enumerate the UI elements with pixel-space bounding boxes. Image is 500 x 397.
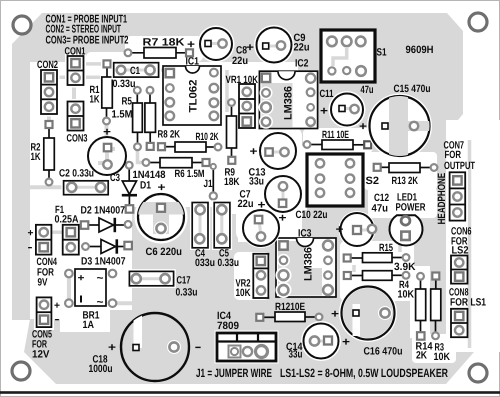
svg-text:10K: 10K <box>236 287 251 299</box>
svg-text:47u: 47u <box>361 84 374 96</box>
capacitor C8 <box>187 26 254 68</box>
svg-text:D1: D1 <box>140 180 151 192</box>
white clearance: VR2 zone <box>234 252 270 300</box>
LED1 <box>390 192 426 246</box>
svg-text:J1 = JUMPER WIRE: J1 = JUMPER WIRE <box>196 366 272 380</box>
capacitor C11 <box>320 84 374 128</box>
resistor R5 <box>112 87 143 150</box>
capacitor C9 <box>254 25 310 65</box>
trace: output net right margin <box>468 140 472 348</box>
trace: R8 to J1 row <box>150 150 208 154</box>
svg-text:R15: R15 <box>379 242 393 254</box>
capacitor C12 <box>336 192 390 248</box>
preset VR1 <box>226 74 259 131</box>
capacitor C1 <box>112 61 162 91</box>
svg-text:+: + <box>342 337 350 349</box>
svg-text:+: + <box>28 228 34 239</box>
trace: CON2 to R1 <box>57 76 100 80</box>
svg-text:22u: 22u <box>294 42 310 54</box>
svg-text:R11 10E: R11 10E <box>322 129 349 141</box>
capacitor C6 <box>135 182 188 258</box>
svg-text:R10 2K: R10 2K <box>196 131 219 143</box>
svg-text:0.33u: 0.33u <box>113 78 136 90</box>
resistor R6 <box>143 158 210 180</box>
legend text block <box>46 14 129 47</box>
resistor R11 <box>304 129 372 150</box>
switch S2 <box>307 154 379 206</box>
svg-text:22u: 22u <box>232 55 248 67</box>
svg-text:~: ~ <box>97 273 105 285</box>
trace: F1 down <box>69 252 73 262</box>
mounting hole top-left <box>13 16 31 34</box>
white clearance: R1/C1/R5 zone <box>86 52 162 124</box>
svg-text:9609H: 9609H <box>406 44 434 56</box>
svg-text:C1: C1 <box>130 65 140 77</box>
white clearance: R7 zone <box>125 36 203 62</box>
PCB copper pour: mid-right zone under S1 around C11/C15 <box>298 62 437 218</box>
trace: C2 to C3 <box>101 169 108 187</box>
svg-text:CON1: CON1 <box>65 46 86 58</box>
svg-text:S2: S2 <box>366 175 380 187</box>
svg-text:R1210E: R1210E <box>275 301 305 313</box>
diode D3 1N4007 <box>81 239 132 267</box>
svg-text:0.25A: 0.25A <box>55 214 79 226</box>
svg-text:-: - <box>28 242 33 254</box>
svg-text:+: + <box>187 39 195 51</box>
jumper J1 <box>204 164 217 200</box>
svg-text:R7 18K: R7 18K <box>143 37 185 49</box>
white clearance: left-mid (CON4/F1/diodes/BR1) <box>30 198 132 310</box>
svg-text:+: + <box>103 127 111 139</box>
white clearance: R11 zone <box>303 128 373 153</box>
white clearance: central zone <box>30 124 252 207</box>
connector CON6 <box>451 226 472 284</box>
svg-text:+: + <box>331 309 339 321</box>
capacitor C15 <box>359 83 432 159</box>
white clearance: VR1/R9 column <box>222 64 258 214</box>
switch S1 <box>321 30 387 82</box>
svg-text:+: + <box>246 42 254 54</box>
white clearance: R15/R4 zone <box>340 241 414 301</box>
bottom dark rule <box>0 391 500 394</box>
capacitor C2 <box>59 168 110 198</box>
svg-text:C17: C17 <box>177 275 191 287</box>
svg-text:22u: 22u <box>238 198 254 210</box>
svg-text:+: + <box>320 106 328 118</box>
diode D1 1N4148 <box>122 162 166 213</box>
svg-text:0.33u: 0.33u <box>218 257 240 269</box>
svg-text:LS2: LS2 <box>452 245 469 257</box>
svg-text:R6 1.5M: R6 1.5M <box>175 168 205 180</box>
connector CON1 <box>65 46 87 88</box>
svg-text:CON3: CON3 <box>67 133 88 145</box>
svg-text:LS1-LS2 = 8-OHM, 0.5W LOUDSPEA: LS1-LS2 = 8-OHM, 0.5W LOUDSPEAKER <box>280 366 448 380</box>
svg-text:C10 22u: C10 22u <box>296 209 328 221</box>
trace: CON2 to R2 <box>47 115 51 123</box>
trace: CON4 to F1 <box>51 230 62 234</box>
amplifier IC3 LM386 <box>276 228 337 299</box>
trace: CON1 to CON3 <box>72 86 76 100</box>
trace: BR1 right pad <box>116 301 140 305</box>
resistor R1 <box>90 60 113 124</box>
resistor R4 <box>344 271 414 301</box>
svg-text:7809: 7809 <box>217 320 239 332</box>
regulator IC4 7809 <box>215 310 279 364</box>
svg-text:12V: 12V <box>32 349 50 361</box>
trace: CON1 to R1 top <box>84 62 102 66</box>
svg-text:18K: 18K <box>224 176 240 188</box>
svg-text:C2 0.33u: C2 0.33u <box>59 168 94 180</box>
white clearance: C12/LED1 label strip <box>368 188 437 218</box>
connector CON3 <box>65 99 88 145</box>
trace: D1 row to J1 <box>150 183 210 187</box>
trace: C11 vertical <box>343 97 346 122</box>
svg-text:D2 1N4007: D2 1N4007 <box>81 205 126 217</box>
trace: R1 to C3 <box>105 124 109 136</box>
trace: BR1 right pad up <box>111 258 115 269</box>
svg-text:HEADPHONE: HEADPHONE <box>436 173 448 225</box>
amplifier IC2 LM386 <box>259 58 318 129</box>
svg-text:R5: R5 <box>122 96 133 108</box>
svg-text:033u: 033u <box>195 257 215 269</box>
svg-text:D3 1N4007: D3 1N4007 <box>81 256 126 268</box>
trace: R7 pad to R1 <box>110 53 125 59</box>
white clearance: C13/C7/C10 zone <box>236 126 302 242</box>
svg-text:+: + <box>250 146 258 158</box>
connector CON4 <box>28 225 58 289</box>
svg-text:10K: 10K <box>434 351 451 363</box>
resistor R9 <box>224 99 240 188</box>
svg-text:R8 2K: R8 2K <box>158 129 181 141</box>
svg-text:9V: 9V <box>38 277 48 289</box>
svg-text:FOR LS1: FOR LS1 <box>450 297 486 309</box>
trace: C1 to IC1 <box>154 68 163 72</box>
svg-text:1000u: 1000u <box>89 363 113 375</box>
white clearance: R11 channel <box>303 129 373 152</box>
capacitor C4 <box>190 200 215 269</box>
white clearance: right connector zone <box>446 120 500 352</box>
svg-text:LM386: LM386 <box>283 86 295 120</box>
bridge rectifier BR1 <box>65 269 116 331</box>
svg-text:+: + <box>108 342 116 354</box>
svg-text:+: + <box>359 121 367 133</box>
connector CON5 <box>32 295 60 361</box>
svg-text:C16 470u: C16 470u <box>364 346 403 358</box>
svg-text:C15 470u: C15 470u <box>394 83 431 95</box>
resistor R7 <box>125 37 193 59</box>
capacitor C7 <box>238 174 304 214</box>
PCB copper pour: left strip <box>12 44 30 320</box>
trace: R2 to C2 <box>47 182 51 187</box>
resistor R15 <box>344 242 416 273</box>
svg-text:+: + <box>158 182 166 194</box>
capacitor C17 <box>127 269 197 298</box>
mounting hole bottom-left <box>12 362 30 380</box>
connector CON2 <box>37 59 60 117</box>
svg-text:C6 220u: C6 220u <box>146 246 183 258</box>
svg-text:~: ~ <box>97 297 105 309</box>
svg-text:CON3= PROBE INPUT2: CON3= PROBE INPUT2 <box>46 35 129 47</box>
mounting hole bottom-right <box>469 364 487 382</box>
capacitor C16 <box>331 284 403 358</box>
svg-text:0.33u: 0.33u <box>176 287 198 299</box>
fuse F1 <box>55 204 79 255</box>
svg-text:IC2: IC2 <box>295 58 309 70</box>
svg-text:-: - <box>55 314 60 326</box>
resistor R14 <box>416 273 433 362</box>
trace: C2 to left strip <box>30 185 62 189</box>
PCB copper pour: top band + top-right block <box>12 13 463 120</box>
PCB copper pour: lower mass <box>24 198 474 384</box>
preset VR2 <box>236 254 269 299</box>
resistor R12 <box>256 301 322 322</box>
trace: center region CON3 to R1 <box>84 109 97 119</box>
trace: IC1/IC2 gap <box>225 70 229 112</box>
resistor R3 <box>431 273 451 364</box>
svg-text:CON2: CON2 <box>37 59 58 71</box>
svg-text:C3: C3 <box>110 172 120 184</box>
svg-text:+: + <box>54 301 60 312</box>
svg-text:C11: C11 <box>320 88 334 100</box>
resistor R10 <box>158 131 221 152</box>
trace: R4 zone stub <box>352 265 356 272</box>
PCB copper pour: right narrow strip <box>432 120 446 356</box>
resistor R8 <box>145 87 180 150</box>
mounting hole top-right <box>469 13 487 31</box>
capacitor C18 <box>89 312 202 381</box>
svg-text:10K: 10K <box>398 289 415 301</box>
svg-text:S1: S1 <box>377 47 387 59</box>
svg-text:R13 2K: R13 2K <box>392 175 419 187</box>
svg-text:OUTPUT: OUTPUT <box>444 160 475 172</box>
trace: inside C3 <box>98 150 115 163</box>
svg-text:47u: 47u <box>372 203 389 215</box>
resistor R2 <box>31 121 55 185</box>
resistor R13 <box>374 163 438 187</box>
capacitor C13 <box>249 131 299 188</box>
svg-text:33u: 33u <box>249 176 264 188</box>
svg-text:1K: 1K <box>90 94 100 106</box>
svg-text:+: + <box>78 273 85 284</box>
svg-text:2K: 2K <box>416 350 427 362</box>
white clearance: left of S2 channel <box>298 146 307 210</box>
trace: BR1 left pads <box>67 277 71 299</box>
svg-text:1K: 1K <box>31 151 41 163</box>
svg-text:VR1 10K: VR1 10K <box>226 74 259 86</box>
trace: R15 zone stub <box>398 243 402 252</box>
trace: D2 pad to D3 pad <box>126 228 130 238</box>
svg-text:TL062: TL062 <box>188 80 200 113</box>
white clearance: CON3/R2 gap <box>60 96 112 128</box>
svg-text:J1: J1 <box>204 178 213 190</box>
svg-text:IC3: IC3 <box>298 228 312 240</box>
svg-text:-: - <box>195 340 202 354</box>
white clearance: R14 column <box>410 266 430 338</box>
trace: R6 to R5 <box>138 151 147 163</box>
white clearance: S2/R13 label strip <box>364 152 437 190</box>
diode D2 1N4007 <box>81 205 132 233</box>
capacitor C14 <box>286 321 350 361</box>
svg-text:POWER: POWER <box>396 202 426 214</box>
svg-text:+: + <box>279 213 287 225</box>
svg-text:+: + <box>336 224 344 236</box>
capacitor C3 <box>88 127 126 185</box>
svg-text:1A: 1A <box>83 319 95 331</box>
svg-text:LM386: LM386 <box>303 247 315 281</box>
connector CON7 <box>436 140 476 225</box>
connector CON8 <box>449 287 486 338</box>
svg-text:33u: 33u <box>289 349 303 361</box>
white clearance: R14/R3 labels <box>412 334 456 363</box>
trace: C1 to R5 <box>136 78 139 86</box>
trace: C1 to R8 <box>149 78 152 86</box>
capacitor C10 <box>241 208 328 248</box>
op-amp IC1 TL062 <box>163 56 221 126</box>
trace: D1 pad to C6 <box>133 207 148 211</box>
capacitor C5 <box>212 200 239 269</box>
svg-text:1.5M: 1.5M <box>112 109 133 121</box>
